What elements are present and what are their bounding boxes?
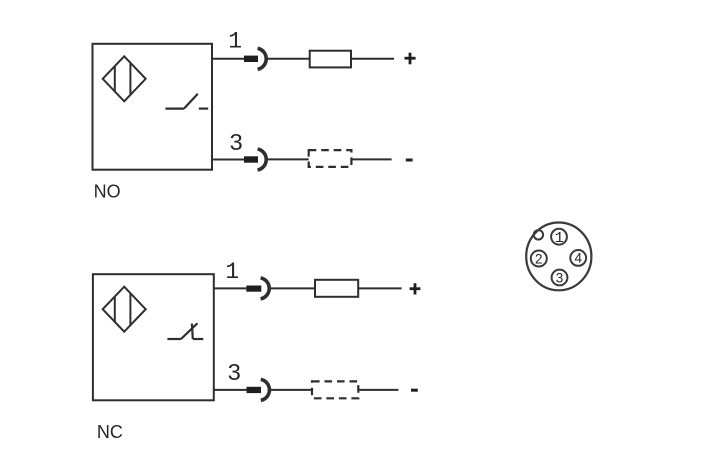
connector plug pin contact NC row3 bbox=[247, 387, 262, 393]
svg-text:1: 1 bbox=[555, 230, 564, 247]
plus terminal NO bbox=[405, 53, 416, 65]
wire NO pin1 from box bbox=[212, 58, 245, 60]
svg-text:3: 3 bbox=[228, 359, 241, 385]
load rectangle NC row1 bbox=[315, 280, 358, 297]
wire NO row3 to minus bbox=[351, 158, 391, 160]
diamond inner line left NC bbox=[114, 297, 116, 322]
svg-text:NC: NC bbox=[97, 422, 123, 442]
wire NC row1 to fuse bbox=[270, 287, 315, 289]
proximity sensor symbol (diamond) NO bbox=[103, 56, 146, 101]
svg-text:NO: NO bbox=[94, 182, 121, 202]
connector keying notch bbox=[534, 230, 543, 239]
wire NC pin3 from box bbox=[213, 389, 247, 391]
wire NO pin3 from box bbox=[212, 159, 245, 161]
svg-text:4: 4 bbox=[574, 251, 582, 266]
diamond inner line right NC bbox=[129, 293, 131, 325]
connector pin 1 circle bbox=[551, 229, 567, 245]
wire NO row1 to fuse bbox=[267, 58, 310, 60]
connector socket arc NO row3 bbox=[258, 149, 267, 170]
NC contact symbol bbox=[167, 323, 203, 339]
NO contact symbol bbox=[165, 94, 208, 109]
proximity sensor symbol (diamond) NC bbox=[103, 287, 146, 332]
minus terminal NC bbox=[411, 389, 418, 392]
diamond inner line left NO bbox=[114, 67, 116, 92]
wire NC pin1 from box bbox=[213, 287, 246, 289]
minus terminal NO bbox=[406, 159, 413, 162]
wire NC row3 to minus bbox=[358, 389, 398, 391]
wire NC row3 to dashed load bbox=[271, 389, 313, 391]
connector plug pin contact NC row1 bbox=[246, 286, 261, 292]
svg-text:3: 3 bbox=[230, 129, 243, 155]
dashed load rectangle NO row3 bbox=[309, 150, 352, 167]
diamond inner line right NO bbox=[129, 63, 131, 95]
connector face outer circle bbox=[526, 223, 591, 291]
sensor box NC bbox=[93, 274, 214, 400]
connector socket arc NO row1 bbox=[258, 48, 267, 69]
connector plug pin contact NO row3 bbox=[244, 156, 258, 162]
svg-text:1: 1 bbox=[225, 259, 239, 285]
svg-text:2: 2 bbox=[535, 251, 543, 266]
connector pin 3 circle bbox=[552, 270, 568, 286]
wire NO row1 to plus bbox=[351, 58, 394, 60]
connector socket arc NC row3 bbox=[261, 379, 270, 400]
wire NO row3 to dashed load bbox=[267, 158, 309, 160]
sensor box NO bbox=[93, 44, 213, 170]
connector socket arc NC row1 bbox=[261, 278, 270, 299]
wire NC row1 to plus bbox=[358, 287, 401, 289]
svg-text:3: 3 bbox=[556, 270, 564, 285]
dashed load rectangle NC row3 bbox=[312, 381, 358, 398]
connector plug pin contact NO row1 bbox=[244, 56, 258, 62]
load rectangle NO row1 bbox=[310, 51, 351, 68]
plus terminal NC bbox=[410, 283, 421, 294]
connector pin 2 circle bbox=[531, 251, 547, 267]
svg-text:1: 1 bbox=[228, 28, 242, 54]
connector pin 4 circle bbox=[570, 250, 586, 266]
